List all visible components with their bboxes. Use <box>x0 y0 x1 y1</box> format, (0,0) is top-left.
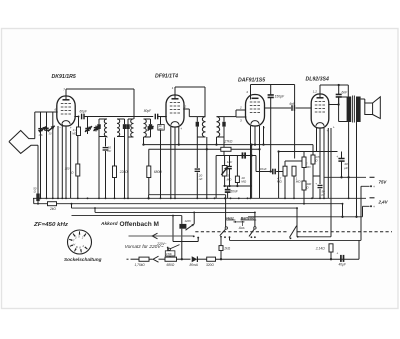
wire V4 top to transformer <box>320 84 348 86</box>
terminal 2.4V plus <box>363 205 370 207</box>
wire 75V line <box>324 176 366 178</box>
capacitor 100uF electrolytic <box>242 152 244 158</box>
coil primary <box>104 119 107 137</box>
resistor 320 ohm <box>207 257 216 261</box>
wire V4 leg 5 to output switch <box>330 128 332 237</box>
capacitor 20nF coupling <box>272 169 274 175</box>
tube V2 DF91 envelope <box>166 95 184 127</box>
wire V1 pin lines to bus <box>57 126 59 198</box>
svg-text:DL92/3S4: DL92/3S4 <box>306 77 329 83</box>
trimmer 2 on oscillator <box>95 126 97 132</box>
tube V2 DF91 anode <box>172 98 179 100</box>
wire tube V1 grid2 stub <box>74 116 78 118</box>
switch arm 2 <box>249 228 255 236</box>
rail line 2 <box>34 203 343 205</box>
svg-text:150pF: 150pF <box>275 95 286 99</box>
svg-text:DF91/1T4: DF91/1T4 <box>155 74 178 80</box>
wire coil frame bottom left <box>128 136 134 138</box>
tube V4 DL92 grid dashes <box>315 101 325 103</box>
capacitor tuning left <box>98 119 100 124</box>
output transformer core <box>352 96 354 123</box>
wire V1 plate top loop to oscillator coil <box>66 88 134 90</box>
svg-text:120V: 120V <box>185 219 193 223</box>
svg-text:680Ω: 680Ω <box>154 170 163 174</box>
capacitor 20nF IF <box>195 168 200 170</box>
wire mains vertical <box>181 216 183 224</box>
capacitor tuning left <box>196 117 198 122</box>
resistor 22k <box>114 138 116 167</box>
wire AVC feed <box>251 145 253 199</box>
coil secondary <box>117 119 120 137</box>
capacitor 6nF coupling <box>291 105 293 111</box>
tube V4 DL92 envelope <box>311 94 329 128</box>
wire 100 ohm to bus <box>77 136 79 165</box>
wire V3 diode plate line <box>264 107 291 109</box>
loudspeaker coil box <box>365 103 373 115</box>
wire IF2 right cap leg down <box>223 137 225 156</box>
wire antenna top to grid line <box>34 112 36 139</box>
svg-text:−: − <box>59 126 61 130</box>
rail special to switch <box>149 194 226 196</box>
capacitor 150pF <box>270 85 272 95</box>
wire V2 plate top loop to IF2 primary <box>175 86 205 88</box>
wire 2.4V vertical <box>342 204 344 217</box>
wire AVC rail corner <box>312 145 314 155</box>
wire IF1 secondary bottom down <box>143 137 145 145</box>
svg-text:DAF91/1S5: DAF91/1S5 <box>238 78 265 84</box>
terminal 75V plus <box>361 185 370 187</box>
wire switch arm 1 feed <box>225 195 227 228</box>
wire V3 legs to bus <box>250 126 252 198</box>
wire arm3 contact line <box>298 236 331 238</box>
tube V4 DL92 filament <box>316 123 324 126</box>
output transformer primary winding <box>347 97 352 123</box>
socket pin H <box>70 245 72 246</box>
svg-text:80pF: 80pF <box>144 109 152 113</box>
svg-text:+: + <box>336 251 338 255</box>
loudspeaker cone <box>373 97 381 119</box>
svg-text:+: + <box>70 126 72 130</box>
resistor 2k heater <box>48 202 57 206</box>
wire 2.4V plus elbow <box>362 206 364 217</box>
tube V1 DK91 grid dashes <box>61 103 71 105</box>
wire coil frame top <box>128 118 134 120</box>
svg-text:+: + <box>315 181 317 185</box>
switch arm 3 <box>289 226 296 238</box>
wire IF2 left cap leg down 20nF <box>196 137 198 168</box>
wire V1 filament leg <box>65 126 67 198</box>
tuning capacitor section 1 line <box>40 112 42 198</box>
svg-text:+: + <box>333 126 335 130</box>
wire selector L-branch <box>172 216 174 242</box>
tube V2 DF91 filament <box>171 122 179 125</box>
tube V3 DAF91 filament <box>251 121 259 124</box>
switch arm 1 <box>220 228 227 235</box>
bus ground line <box>33 197 366 199</box>
coil secondary <box>217 117 220 137</box>
svg-text:D: D <box>76 245 78 249</box>
wire chain right end up <box>358 240 360 259</box>
chain line <box>131 258 140 260</box>
wire IF2 secondary bottom leg <box>216 137 218 145</box>
capacitor 20nF left <box>105 138 107 147</box>
mains contact dots <box>193 235 195 237</box>
svg-text:+: + <box>336 155 338 159</box>
svg-text:2kΩ: 2kΩ <box>49 207 56 211</box>
selector lever 220V <box>169 245 180 250</box>
wire secondary legs down <box>348 122 350 199</box>
wire V3 grid stub 2 <box>236 116 247 118</box>
capacitor 50nF <box>227 186 229 190</box>
wire screen rail with 27k <box>149 148 221 150</box>
wire coil frame bottom left <box>197 136 205 138</box>
terminal 75V minus <box>370 176 375 178</box>
coil secondary <box>144 119 147 137</box>
capacitor tuning left <box>127 119 129 124</box>
wire AF bottom rail <box>224 185 252 187</box>
wire V4 leg 4 <box>327 128 329 198</box>
resistor 10M AF <box>236 156 238 177</box>
svg-text:MΩ: MΩ <box>241 180 247 184</box>
wire selector to chain <box>167 248 169 252</box>
volume potentiometer 1M <box>224 156 226 166</box>
wire AF top rail <box>216 155 256 157</box>
coil primary <box>131 119 134 137</box>
svg-text:ZF=450 kHz: ZF=450 kHz <box>33 222 68 228</box>
rail line 3 <box>72 207 298 209</box>
wire 75V plus down <box>360 186 362 240</box>
svg-text:10k: 10k <box>39 133 44 137</box>
wire coil frame bottom right <box>217 136 225 138</box>
wire V3 plate top loop <box>251 84 295 86</box>
svg-text:Offenbach M: Offenbach M <box>120 221 160 228</box>
switch position arrow <box>233 221 244 223</box>
tuning capacitor section 1 <box>38 128 42 130</box>
trimmer IF1 dark cap <box>148 126 154 129</box>
capacitor tuning right <box>117 118 125 120</box>
resistor 4.7M grid <box>284 161 286 166</box>
tube V4 DL92 anode <box>317 97 324 99</box>
resistor 1M <box>292 166 296 176</box>
arrow chain <box>153 256 159 262</box>
wire coil frame bottom left <box>99 136 107 138</box>
svg-text:2,4V: 2,4V <box>378 200 389 205</box>
wire loop right down to 1M <box>294 85 296 159</box>
wire coil frame top <box>99 118 107 120</box>
svg-text:150k: 150k <box>166 252 172 256</box>
svg-text:+: + <box>180 127 182 131</box>
wire 150pF down to coupling <box>270 98 272 172</box>
svg-text:Aus: Aus <box>238 226 245 230</box>
wire arm1 to 2k resistor <box>220 237 222 246</box>
socket pin 3 <box>73 234 75 236</box>
svg-text:680Ω: 680Ω <box>167 263 175 267</box>
rail to 2.4V <box>248 216 363 218</box>
tuning capacitor section 3 line <box>52 112 54 198</box>
wire antenna bottom to bus <box>37 145 39 194</box>
wire grid line V1 <box>35 111 58 113</box>
svg-text:40µF: 40µF <box>339 262 347 266</box>
wire vertical 278.6 <box>278 152 280 199</box>
tube V2 DF91 grid dashes <box>170 102 180 104</box>
socket pin 7 <box>69 238 72 241</box>
tube V4 pins 1,2 top lead <box>319 85 321 98</box>
svg-text:µF: µF <box>322 192 326 196</box>
svg-text:+: + <box>373 185 375 189</box>
tube V3 DAF91 envelope <box>246 95 265 127</box>
electrolytic 40uF B+ <box>338 158 344 160</box>
chain line left stub <box>127 258 129 260</box>
wire rail corner to coupling <box>255 156 257 172</box>
tube V2 pin1 top lead <box>174 87 176 99</box>
tube V3 DAF91 grid dashes <box>250 101 260 103</box>
wire oscillator legs to bus <box>98 137 100 199</box>
tube V1 DK91 anode <box>63 99 70 101</box>
wire V4 legs <box>316 128 318 152</box>
resistor 2M <box>302 157 306 168</box>
rail line 4 <box>95 211 255 213</box>
terminal 2.4V minus <box>370 197 375 199</box>
tube V1 DK91 filament <box>62 121 70 124</box>
svg-text:2kΩ: 2kΩ <box>223 246 230 250</box>
resistor 2k output <box>219 246 223 251</box>
wire V2 legs to bus <box>170 127 172 198</box>
wire RF line to 80pF <box>84 116 153 118</box>
wire lever feed vertical <box>193 212 195 224</box>
resistor 170 ohm <box>311 155 315 164</box>
svg-text:50nF: 50nF <box>230 190 238 194</box>
svg-text:+: + <box>373 205 375 209</box>
arrow vorsatz upper <box>152 233 157 239</box>
wire IF2 primary bottom to bus <box>206 137 208 198</box>
wire secondary top to speaker <box>361 98 365 100</box>
tuning capacitor section 2 arrow <box>44 127 48 129</box>
wire AVC rail <box>144 144 252 146</box>
svg-text:75V: 75V <box>379 180 388 185</box>
svg-text:80mA: 80mA <box>190 263 198 267</box>
svg-text:+: + <box>327 129 329 133</box>
svg-text:320Ω: 320Ω <box>206 263 214 267</box>
resistor 680 ohm <box>148 149 150 166</box>
svg-text:µF: µF <box>344 166 348 170</box>
svg-text:MΩ: MΩ <box>277 180 282 184</box>
wire V2 plate stub <box>183 108 189 110</box>
svg-text:2: 2 <box>239 106 242 110</box>
wire mid rail right <box>279 151 338 153</box>
capacitor 6nF anode <box>338 85 340 94</box>
resistor 680 ohm mains <box>165 257 177 261</box>
tube V3 DAF91 anode <box>252 97 259 99</box>
wire V4 anode stub <box>328 104 338 106</box>
socket pin 6 <box>80 250 82 253</box>
wire AVC rail extension <box>252 144 313 146</box>
svg-text:1,2: 1,2 <box>313 90 318 94</box>
frame antenna diamond <box>9 131 38 154</box>
wire arm2 contact line <box>230 239 362 241</box>
svg-text:2,14Ω: 2,14Ω <box>315 246 325 250</box>
electrolytic 40uF output <box>340 255 342 262</box>
socket pin 2 <box>85 247 87 249</box>
rail line 5 <box>72 215 182 217</box>
socket pin D <box>75 249 76 251</box>
wire 6nF down to anode stub <box>338 97 340 104</box>
output transformer primary frame <box>338 97 340 122</box>
svg-text:220V~: 220V~ <box>156 242 166 246</box>
output transformer secondary winding <box>356 97 361 123</box>
switch linkage dashed line <box>195 231 287 233</box>
capacitor tuning right <box>217 116 225 118</box>
resistor 10M label box V2 grid <box>161 116 167 118</box>
svg-text:Sockelschaltung: Sockelschaltung <box>64 257 102 262</box>
socket circle Sockelschaltung <box>68 230 92 254</box>
svg-text:MΩ: MΩ <box>296 180 301 184</box>
svg-text:100: 100 <box>65 167 70 171</box>
resistor 400 ohm <box>302 181 306 190</box>
mains switch lever <box>186 224 195 230</box>
electrolytic 50uF cathode <box>319 176 321 184</box>
trimmer on oscillator <box>85 127 89 129</box>
capacitor tuning right <box>144 118 151 120</box>
svg-text:20nF: 20nF <box>259 167 268 171</box>
svg-text:DK91/1R5: DK91/1R5 <box>52 74 76 80</box>
svg-text:1,75kΩ: 1,75kΩ <box>135 263 146 267</box>
svg-text:27kΩ: 27kΩ <box>224 140 233 144</box>
wire switch arm 2 feed <box>254 212 256 227</box>
wire V1 screen leg <box>70 131 72 198</box>
svg-text:60pF: 60pF <box>80 109 88 113</box>
svg-text:6nF: 6nF <box>342 90 349 94</box>
diode 80mA <box>192 256 198 262</box>
svg-text:MΩ: MΩ <box>306 165 311 169</box>
svg-text:Akkord: Akkord <box>100 221 118 226</box>
wire IF2 secondary top to V3 grid <box>224 116 236 118</box>
socket pin 2 <box>84 234 86 236</box>
tube V3 pin4 top lead <box>250 85 252 100</box>
resistor 1.75k <box>139 257 149 261</box>
coil primary <box>202 117 205 137</box>
wire IF1 legs <box>127 137 129 198</box>
tube V1 pin7 top lead <box>65 89 67 100</box>
wire top of grid resistors <box>285 160 304 162</box>
boxed label 150k <box>165 251 175 256</box>
wire switch arm 3 feed <box>296 208 298 237</box>
mains selector block <box>179 224 186 229</box>
svg-text:22kΩ: 22kΩ <box>119 170 128 174</box>
wire coil frame bottom right <box>144 136 151 138</box>
tuning capacitor section 2 line <box>46 112 48 198</box>
wire coil frame bottom right <box>117 136 125 138</box>
wire vorsatz upper line <box>129 235 194 237</box>
socket pin 5 <box>79 231 81 234</box>
wire coil frame top <box>197 116 205 118</box>
tube V1 DK91 envelope <box>57 96 75 126</box>
wire transformer top feed <box>347 85 349 97</box>
wire coil mid leg <box>124 137 126 199</box>
wire V2 plus leg <box>178 127 180 145</box>
svg-text:2: 2 <box>184 105 187 109</box>
